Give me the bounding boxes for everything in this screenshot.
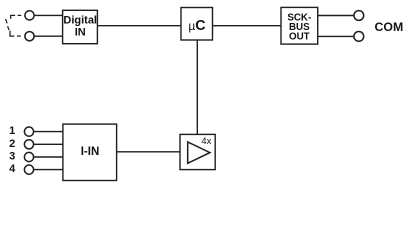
wire [318,15,354,17]
wire [34,169,63,171]
wire [34,35,63,37]
svg-text:IN: IN [75,26,86,38]
wire Digital IN to uC [97,25,181,27]
terminal circle 1 [24,127,33,136]
wire I-IN to amplifier [117,151,180,153]
block Digital IN [63,10,98,43]
terminal circle 4 [24,165,33,174]
block SCK-BUS OUT [281,7,318,44]
wire [34,131,63,133]
op-amp triangle (4x amplifier) [188,142,210,163]
terminal circle (digital input upper) [25,11,34,20]
terminal circle (COM upper) [354,11,364,21]
terminal circle 3 [24,152,33,161]
svg-text:1: 1 [9,125,15,137]
svg-text:µC: µC [188,18,205,34]
wire uC down to amplifier [196,40,198,134]
svg-text:3: 3 [9,151,15,163]
svg-text:I-IN: I-IN [81,146,100,158]
svg-text:2: 2 [9,138,15,150]
block I-IN [63,124,117,180]
svg-text:4x: 4x [201,135,211,146]
block amplifier 4x [180,134,215,169]
switch contact S1 (dashed, external) [6,15,22,36]
wire uC to SCK-BUS OUT [213,25,282,27]
terminal circle 2 [24,140,33,149]
wire [34,143,63,145]
wire [34,156,63,158]
svg-text:Digital: Digital [63,15,97,27]
wire [34,14,63,16]
block uC (microcontroller) [181,8,213,41]
wire [318,35,354,37]
svg-text:4: 4 [9,163,16,175]
terminal circle (COM lower) [354,32,364,42]
svg-text:COM: COM [375,20,404,34]
terminal circle (digital input lower) [25,32,34,41]
svg-text:OUT: OUT [289,32,310,43]
